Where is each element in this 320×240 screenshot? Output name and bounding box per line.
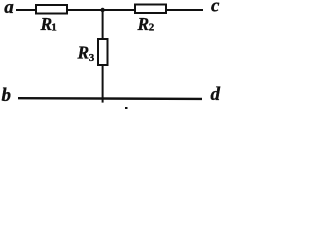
svg-text:a: a [4, 0, 14, 18]
svg-text:d: d [211, 84, 221, 105]
svg-text:c: c [211, 0, 220, 17]
svg-text:b: b [2, 85, 12, 106]
